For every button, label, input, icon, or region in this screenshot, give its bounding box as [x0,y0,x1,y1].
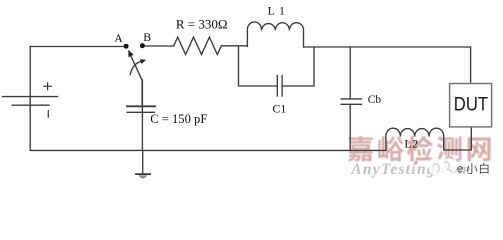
svg-text:e: e [457,162,464,176]
svg-text:L2: L2 [404,137,418,151]
svg-text:C1: C1 [272,102,286,116]
svg-text:Cb: Cb [368,94,382,106]
svg-text:C = 150 pF: C = 150 pF [150,112,207,126]
svg-text:R = 330Ω: R = 330Ω [176,17,228,32]
svg-text:L1: L1 [268,4,290,18]
svg-text:DUT: DUT [454,95,488,116]
svg-text:B: B [143,30,151,44]
svg-text:A: A [114,31,123,45]
